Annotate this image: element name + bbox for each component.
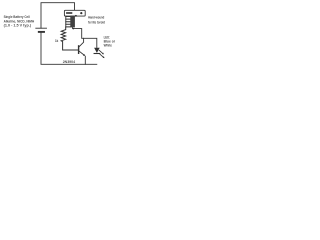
svg-text:Alkaline, NiCD, NiMH: Alkaline, NiCD, NiMH	[4, 19, 35, 23]
svg-text:Single Battery Cell: Single Battery Cell	[4, 15, 30, 19]
svg-text:2N3904: 2N3904	[63, 60, 75, 64]
svg-text:Hand-wound: Hand-wound	[88, 16, 104, 20]
svg-text:1k: 1k	[55, 39, 58, 43]
svg-text:ferrite toroid: ferrite toroid	[88, 20, 105, 24]
svg-text:(1.0 - 1.5 V typ.): (1.0 - 1.5 V typ.)	[4, 24, 32, 28]
svg-text:White: White	[104, 44, 112, 48]
